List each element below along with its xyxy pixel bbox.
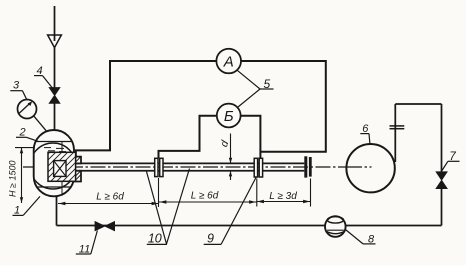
svg-text:9: 9 [207,232,214,246]
svg-text:11: 11 [79,244,90,256]
svg-text:L ≥ 6d: L ≥ 6d [191,191,219,202]
svg-text:4: 4 [36,65,42,77]
svg-text:7: 7 [449,151,456,163]
svg-text:6: 6 [362,123,369,135]
svg-text:8: 8 [368,233,375,245]
svg-text:H ≥ 1500: H ≥ 1500 [8,161,18,197]
svg-text:2: 2 [18,127,25,139]
svg-text:L ≥ 3d: L ≥ 3d [269,191,297,202]
svg-text:10: 10 [148,232,162,246]
svg-text:L ≥ 6d: L ≥ 6d [96,192,124,203]
svg-text:А: А [223,53,234,70]
svg-text:Б: Б [224,108,234,125]
svg-text:5: 5 [263,77,270,91]
svg-text:1: 1 [14,205,20,217]
svg-text:3: 3 [13,80,20,92]
